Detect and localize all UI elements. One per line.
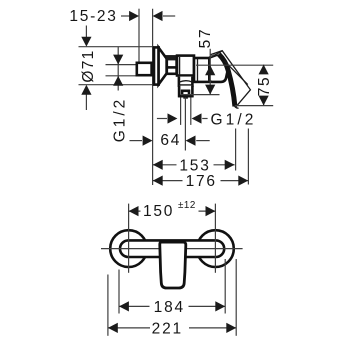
wire: wall reference line left [138,9,140,62]
wire: extension line y105.6 [235,105,273,107]
wire: extension line x235.6 [235,129,237,171]
wire: outlet pipe extension lines [180,98,182,125]
union nut [166,56,177,74]
mixer body (side view) [177,56,194,76]
svg-text:Ø71: Ø71 [80,49,97,82]
escutcheon circle right [197,230,234,267]
svg-text:221: 221 [152,321,183,338]
svg-text:G1/2: G1/2 [111,97,128,143]
dimension 150 +/-12 [129,200,216,220]
escutcheon circle left [110,230,147,267]
concealed union square [137,63,152,75]
svg-text:176: 176 [186,173,217,190]
mixer body bar (front view) [120,240,224,257]
svg-text:75: 75 [256,76,273,96]
escutcheon flange [154,47,159,84]
wire: wall line [152,9,154,185]
svg-text:184: 184 [154,299,185,316]
svg-text:64: 64 [160,132,181,149]
svg-text:57: 57 [197,28,214,49]
cartridge housing [194,58,210,82]
dimension &#216;71 [79,26,154,111]
dimension 153 [153,157,235,174]
escutcheon cone [159,48,167,85]
handle (front view) [160,242,186,288]
dimension 184 [119,259,225,316]
dimension 176 [153,173,248,190]
wire: outlet centerline [184,98,186,151]
wire: extension line y94.6 [181,94,220,96]
dimension 221 [108,259,236,338]
dimension 57 [197,28,215,95]
dimension G1/2 left [111,47,128,143]
node: centerline horizontal [101,248,243,250]
outlet nut [178,86,193,99]
svg-text:15-23: 15-23 [69,8,117,25]
wire: supply pipe in wall [106,64,137,66]
wire: extension line y65 [196,64,273,66]
svg-text:150: 150 [143,203,174,220]
node: centerline right vertical [214,204,216,273]
dimension 15-23 [69,8,175,25]
node: centerline left vertical [128,204,130,273]
dimension 64 [130,132,210,149]
dimension G1/2 right [157,111,257,128]
svg-text:±12: ±12 [178,200,196,211]
wire: body inner line [179,57,181,74]
outlet section 1 [179,77,193,86]
dimension 75 [256,65,273,106]
wire: cartridge ring line [197,59,199,81]
wire: extension line x248.4 [247,129,249,185]
lever grip (side view) [209,54,227,82]
svg-text:G1/2: G1/2 [211,111,257,128]
svg-text:153: 153 [179,157,210,174]
lever blade (side view) [210,51,250,108]
